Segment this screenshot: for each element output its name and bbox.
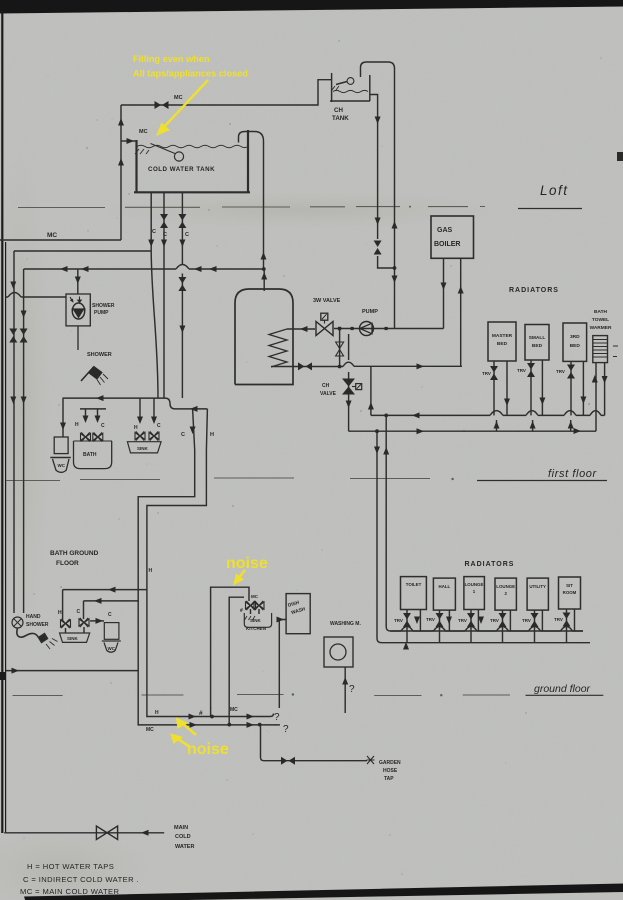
svg-text:FLOOR: FLOOR [56,560,79,567]
svg-text:GAS: GAS [437,227,453,234]
svg-text:MASTER: MASTER [492,333,513,339]
svg-text:C: C [152,229,156,235]
svg-text:COLD WATER TANK: COLD WATER TANK [148,166,215,173]
svg-text:H: H [134,425,138,431]
svg-text:SINK: SINK [67,636,79,641]
svg-text:TOILET: TOILET [406,582,422,587]
svg-text:WASHING M.: WASHING M. [330,621,361,627]
svg-text:ground floor: ground floor [534,683,591,695]
svg-text:VALVE: VALVE [320,391,337,397]
svg-text:HAND: HAND [26,614,41,620]
svg-text:All taps/appliances closed: All taps/appliances closed [133,69,248,79]
svg-text:H = HOT WATER TAPS: H = HOT WATER TAPS [27,862,114,871]
svg-text:MC: MC [146,727,154,733]
svg-text:CH: CH [334,107,343,114]
svg-text:BATH: BATH [83,452,97,458]
svg-text:LOUNGE: LOUNGE [496,584,515,589]
svg-text:C: C [77,609,81,615]
svg-text:MC: MC [251,594,259,599]
svg-text:TRV: TRV [426,617,435,622]
svg-text:Loft: Loft [540,183,569,198]
svg-text:MC: MC [230,707,238,713]
svg-text:C: C [108,612,112,618]
svg-text:SINK: SINK [250,618,262,623]
svg-text:?: ? [349,684,355,695]
svg-text:C: C [101,423,105,429]
svg-text:first floor: first floor [548,468,598,480]
svg-text:3RD: 3RD [570,334,580,340]
svg-text:BED: BED [532,343,543,349]
svg-text:MC = MAIN COLD WATER: MC = MAIN COLD WATER [20,887,119,896]
svg-text:C: C [181,432,185,438]
svg-text:H: H [75,422,79,428]
svg-text:C: C [157,423,161,429]
svg-text:TRV: TRV [556,369,565,374]
svg-text:WATER: WATER [175,844,194,850]
svg-text:MC: MC [139,129,148,135]
svg-text:H: H [58,610,62,616]
svg-text:RADIATORS: RADIATORS [465,561,515,568]
svg-text:TAP: TAP [384,776,394,782]
svg-text:C: C [185,232,189,238]
svg-text:LOUNGE: LOUNGE [465,582,484,587]
svg-text:PUMP: PUMP [362,309,378,315]
svg-text:TRV: TRV [482,371,491,376]
svg-text:#: # [199,710,203,717]
svg-text:BED: BED [570,343,581,349]
svg-text:C = INDIRECT COLD WATER .: C = INDIRECT COLD WATER . [23,875,139,884]
svg-text:BATH: BATH [594,309,608,315]
svg-text:SIT: SIT [566,583,573,588]
svg-text:3W VALVE: 3W VALVE [313,298,341,304]
svg-text:GARDEN: GARDEN [379,760,401,766]
svg-text:SMALL: SMALL [529,335,546,341]
svg-text:?: ? [283,724,289,735]
svg-text:H: H [155,710,159,716]
svg-text:COLD: COLD [175,834,191,840]
svg-text:WC: WC [108,646,116,651]
svg-text:H: H [210,432,214,438]
svg-text:#: # [240,608,243,614]
svg-text:TANK: TANK [332,115,349,122]
svg-text:UTILITY: UTILITY [529,584,546,589]
svg-text:PUMP: PUMP [94,310,109,316]
svg-text:TRV: TRV [554,617,563,622]
svg-text:TRV: TRV [517,368,526,373]
svg-text:BOILER: BOILER [434,241,460,248]
svg-text:BED: BED [497,341,508,347]
svg-text:noise: noise [226,555,268,572]
svg-text:SHOWER: SHOWER [92,303,115,309]
svg-text:HALL: HALL [439,584,451,589]
svg-text:RADIATORS: RADIATORS [509,287,559,294]
svg-text:MC: MC [47,232,57,239]
svg-text:noise: noise [187,741,229,758]
svg-text:TRV: TRV [490,618,499,623]
svg-text:SINK: SINK [137,446,149,451]
svg-text:KITCHEN: KITCHEN [246,626,266,631]
svg-text:?: ? [274,712,280,723]
svg-text:MC: MC [174,95,183,101]
svg-text:SHOWER: SHOWER [26,622,49,628]
svg-text:CH: CH [322,383,330,389]
svg-text:TOWEL: TOWEL [592,317,609,323]
svg-text:HOSE: HOSE [383,768,398,774]
svg-text:SHOWER: SHOWER [87,352,112,358]
svg-text:ROOM: ROOM [563,590,577,595]
svg-text:BATH GROUND: BATH GROUND [50,550,99,557]
svg-text:TRV: TRV [522,618,531,623]
svg-text:MAIN: MAIN [174,825,188,831]
svg-text:H: H [149,568,153,574]
svg-text:TRV: TRV [394,618,403,623]
svg-text:WC: WC [58,463,66,468]
svg-text:WARMER: WARMER [590,325,612,331]
svg-text:C: C [163,232,167,238]
svg-text:Filling even when: Filling even when [133,54,210,64]
svg-text:TRV: TRV [458,618,467,623]
